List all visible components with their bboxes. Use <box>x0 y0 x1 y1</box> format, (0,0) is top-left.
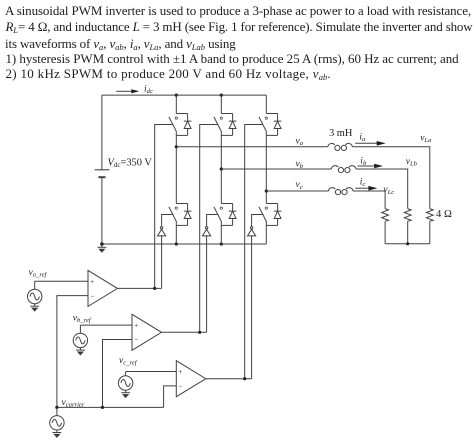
ground source b <box>76 348 85 356</box>
node dot battery / bottom rail <box>100 242 104 246</box>
wire battery negative lead <box>101 177 103 244</box>
ground main <box>98 244 107 253</box>
wire gate of S6 <box>207 215 218 227</box>
ground source a <box>30 304 39 312</box>
wire comparator U3 output <box>206 378 252 380</box>
source v_b_ref <box>73 333 87 347</box>
svg-text:va_ref: va_ref <box>29 268 48 279</box>
switch S6 bottom of leg B with diode D6 <box>214 204 237 226</box>
switch S2 bottom of leg C with diode D2 <box>259 204 282 226</box>
wire U2 + input <box>80 325 132 333</box>
wire leg B lower <box>220 225 222 244</box>
wire inductor La to load branch a <box>352 147 429 209</box>
wire phase b to inductor <box>221 168 331 170</box>
svg-text:4 Ω: 4 Ω <box>436 209 452 220</box>
wire leg B upper <box>220 95 222 113</box>
node dot carrier / U1 - <box>55 406 58 409</box>
current arrow i_b <box>358 164 384 169</box>
wire leg C lower <box>265 225 267 244</box>
svg-text:ib: ib <box>360 157 367 168</box>
svg-text:ia: ia <box>359 133 366 144</box>
svg-text:vLa: vLa <box>420 133 432 144</box>
wire dc top rail <box>102 94 266 96</box>
node dot bottom rail / leg B <box>220 242 223 245</box>
wire leg A middle <box>175 135 177 203</box>
wire leg B middle <box>220 135 222 203</box>
svg-text:vLb: vLb <box>406 157 418 168</box>
svg-text:Vdc=350 V: Vdc=350 V <box>108 157 153 169</box>
switch S5 top of leg C with diode D5 <box>259 114 282 136</box>
current arrow i_c <box>355 186 377 191</box>
comparator U1 phase a <box>88 270 118 306</box>
node dot phase c <box>265 189 268 192</box>
wire gate of S2 <box>252 215 263 227</box>
wire U1 + input <box>35 281 88 289</box>
ground source carrier <box>53 430 62 438</box>
wire resistor Ra to star point <box>429 221 431 244</box>
svg-text:vLc: vLc <box>383 185 394 196</box>
svg-text:idc: idc <box>144 85 153 96</box>
wire carrier source lead <box>56 407 58 415</box>
node dot top rail / leg A <box>175 94 178 97</box>
wire leg A lower <box>175 225 177 244</box>
comparator U3 phase c <box>176 361 206 397</box>
wire resistor Rb to star point <box>407 221 409 244</box>
wire carrier bus <box>57 406 164 408</box>
source v_a_ref <box>28 289 42 303</box>
wire comparator U1 output <box>118 287 162 289</box>
wire gate of S5 <box>245 125 263 379</box>
switch S4 bottom of leg A with diode D4 <box>169 204 192 226</box>
NOT gate leg A <box>158 227 166 236</box>
wire leg C middle <box>265 135 267 203</box>
problem statement line 3 <box>5 36 236 52</box>
node dot U1 output / gate S1 <box>153 287 156 290</box>
inductor La 3 mH <box>328 143 353 150</box>
ground source c <box>121 391 130 399</box>
wire load star rail <box>385 243 430 245</box>
battery Vdc plates <box>95 170 110 177</box>
problem statement line 2 <box>6 19 473 35</box>
svg-text:vc: vc <box>296 180 303 191</box>
wire battery positive lead <box>101 95 103 170</box>
problem statement line 5 <box>6 66 331 82</box>
resistor Ra <box>426 209 433 222</box>
svg-text:ic: ic <box>360 177 366 188</box>
wire gate of S1 <box>155 125 173 289</box>
wire leg C upper <box>265 95 267 113</box>
svg-text:vb: vb <box>296 160 304 171</box>
svg-text:va: va <box>296 136 304 147</box>
wire U1 - input to carrier <box>57 296 88 408</box>
source v_c_ref <box>118 376 132 390</box>
inductor Lb <box>331 166 356 173</box>
switch S3 top of leg B with diode D3 <box>214 114 237 136</box>
svg-text:vc_ref: vc_ref <box>119 356 138 367</box>
wire inductor Lc to load branch c <box>353 191 385 209</box>
svg-text:vb_ref: vb_ref <box>73 314 92 325</box>
source v_carrier <box>50 416 64 430</box>
problem statement line 4 <box>6 51 459 67</box>
wire gate of S3 <box>200 125 218 333</box>
problem statement line 1 <box>5 3 471 19</box>
wire gate of S4 <box>162 215 173 227</box>
svg-text:3 mH: 3 mH <box>329 128 353 139</box>
inductor Lc <box>328 188 353 195</box>
current arrow i_a <box>355 141 386 146</box>
node dot star point <box>406 242 409 245</box>
comparator U2 phase b <box>132 314 162 350</box>
svg-text:vcarrier: vcarrier <box>62 398 85 409</box>
wire leg A upper <box>175 95 177 113</box>
node dot U3 output / gate S5 <box>243 377 246 380</box>
wire U3 + input <box>126 372 177 376</box>
wire NOT gate C input <box>251 235 253 378</box>
resistor Rb <box>404 209 411 222</box>
node dot phase b <box>220 167 223 170</box>
wire NOT gate A input <box>161 235 163 288</box>
node dot U2 output / gate S3 <box>198 331 201 334</box>
wire NOT gate B input <box>206 235 208 332</box>
wire comparator U2 output <box>162 331 207 333</box>
wire phase c to inductor <box>266 190 328 192</box>
node dot bottom rail / leg A <box>175 242 178 245</box>
NOT gate leg B <box>203 227 211 236</box>
wire U3 - input to carrier <box>164 386 177 408</box>
wire resistor Rc to star point <box>384 221 386 244</box>
wire dc bottom rail <box>102 243 266 245</box>
wire phase a to inductor <box>176 146 327 148</box>
NOT gate leg C <box>248 227 256 236</box>
current arrow i_dc <box>116 89 139 93</box>
wire inductor Lb to load branch b <box>356 169 408 209</box>
resistor Rc <box>382 209 389 222</box>
node dot phase a <box>175 145 178 148</box>
switch S1 top of leg A with diode D1 <box>169 114 192 136</box>
node dot carrier / U2 - <box>101 406 104 409</box>
wire U2 - input to carrier <box>103 340 133 408</box>
node dot top rail / leg B <box>220 94 223 97</box>
